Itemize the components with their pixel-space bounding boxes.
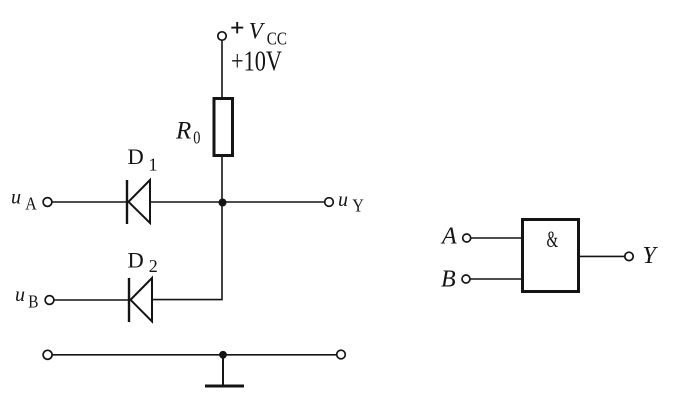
svg-text:B: B: [441, 267, 456, 293]
wire uB to D2: [54, 299, 129, 301]
terminal Y: [625, 252, 633, 260]
terminal B: [462, 275, 470, 283]
label uA: [11, 187, 37, 214]
wire B to gate: [470, 278, 521, 280]
power terminal +VCC: [218, 32, 226, 40]
wire node Y to uY: [222, 201, 325, 203]
wire gate to Y: [580, 255, 625, 257]
svg-text:u: u: [338, 189, 348, 211]
diode D2: [129, 278, 152, 322]
terminal ground right: [337, 350, 346, 359]
svg-text:D: D: [128, 248, 144, 273]
svg-text:&: &: [547, 228, 559, 253]
wire R0 to node Y: [221, 157, 223, 202]
label D2: [128, 248, 158, 276]
svg-text:+10V: +10V: [231, 45, 283, 77]
ground junction: [219, 351, 227, 359]
terminal uB: [45, 296, 54, 305]
terminal uA: [43, 198, 52, 207]
ground rail wire: [52, 354, 336, 356]
wire uA to D1: [52, 201, 127, 203]
svg-text:A: A: [25, 194, 37, 214]
svg-text:u: u: [15, 284, 25, 306]
svg-text:0: 0: [193, 127, 200, 148]
and-gate U1: [523, 220, 579, 292]
wire A to gate: [471, 237, 521, 239]
svg-text:D: D: [128, 144, 144, 169]
svg-text:Y: Y: [352, 196, 363, 216]
svg-text:B: B: [28, 291, 38, 311]
diode D1: [127, 180, 150, 224]
label R0: [175, 118, 200, 148]
wire D1 to node Y: [150, 201, 222, 203]
label D1: [128, 144, 158, 174]
wire node Y down to D2 corner: [152, 202, 222, 300]
svg-text:R: R: [175, 118, 191, 145]
terminal uY: [325, 198, 334, 207]
wire VCC to R0: [221, 40, 223, 97]
svg-text:A: A: [440, 223, 457, 249]
svg-text:2: 2: [149, 256, 158, 276]
label uY: [338, 189, 364, 216]
terminal A: [463, 234, 471, 242]
svg-text:u: u: [11, 187, 21, 209]
node Y junction: [219, 199, 227, 207]
label uB: [15, 284, 38, 312]
resistor R0: [214, 99, 233, 156]
terminal ground left: [43, 350, 52, 359]
svg-text:1: 1: [149, 154, 158, 174]
label +VCC: [231, 18, 287, 48]
ground symbol: [205, 355, 244, 386]
